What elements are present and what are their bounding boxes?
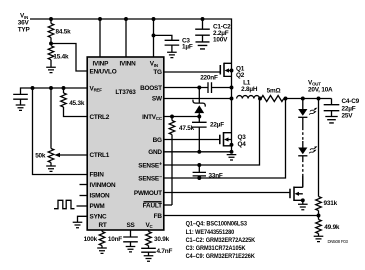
wire ISMON stub xyxy=(80,195,88,197)
svg-text:220nF: 220nF xyxy=(200,74,218,81)
node VOUT label xyxy=(308,80,333,94)
svg-text:L1: WE7443551280: L1: WE7443551280 xyxy=(186,230,235,236)
svg-text:10nF: 10nF xyxy=(108,236,122,243)
wire VIN rail to Q1 drain xyxy=(30,19,232,99)
wire VOUT line xyxy=(286,98,332,100)
svg-text:Q1–Q4: BSC100N06LS3: Q1–Q4: BSC100N06LS3 xyxy=(186,221,248,227)
svg-text:FB: FB xyxy=(154,213,163,220)
wire SW riser to Q3 drain and GND xyxy=(231,99,233,152)
wire TG to Q1 gate xyxy=(164,71,221,73)
wire FBIN to VREF xyxy=(33,88,88,175)
IC U1 LT3763 body xyxy=(87,57,164,230)
ground for SYNC xyxy=(73,222,83,227)
svg-text:SENSE+: SENSE+ xyxy=(138,161,162,169)
svg-text:SS: SS xyxy=(126,222,135,229)
svg-text:5mΩ: 5mΩ xyxy=(267,87,281,94)
svg-text:IVINMON: IVINMON xyxy=(90,182,117,189)
resistor R6 30.9k on VC xyxy=(146,230,170,248)
capacitor C3 1uF xyxy=(165,37,193,52)
ground for 50k pot xyxy=(46,166,56,171)
svg-text:4.7nF: 4.7nF xyxy=(157,248,173,255)
svg-text:SENSE−: SENSE− xyxy=(138,174,162,182)
junction VREF/50k xyxy=(49,86,53,90)
junction FB/divider xyxy=(317,214,321,218)
ground for VREF bypass xyxy=(16,105,26,110)
junction VOUT/divider xyxy=(317,97,321,101)
resistor R9 931k xyxy=(316,99,338,216)
wire FB line xyxy=(164,215,319,217)
svg-text:50k: 50k xyxy=(35,152,46,159)
resistor R7 47.5k FAULT pullup xyxy=(169,117,194,206)
svg-text:1µF: 1µF xyxy=(182,43,193,50)
svg-text:TG: TG xyxy=(153,69,162,76)
junction VREF/FBIN riser xyxy=(31,86,35,90)
svg-text:FBIN: FBIN xyxy=(90,171,105,178)
ground for Q5 xyxy=(298,204,308,209)
inductor L1 2.8uH xyxy=(237,80,260,99)
svg-text:ISMON: ISMON xyxy=(90,193,111,200)
svg-text:LT3763: LT3763 xyxy=(115,89,136,96)
ground for SS xyxy=(126,247,136,252)
svg-text:EN/UVLO: EN/UVLO xyxy=(90,68,117,75)
wire GND line xyxy=(164,151,232,153)
capacitor C10 10nF on SS xyxy=(108,230,138,247)
capacitor C11 4.7nF on VC xyxy=(141,248,172,256)
wire SW line xyxy=(164,98,232,100)
svg-text:C1–C2: GRM32ER72A225K: C1–C2: GRM32ER72A225K xyxy=(186,238,256,244)
resistor R3 45.3k xyxy=(61,88,87,117)
wire SENSE+ line xyxy=(164,99,260,166)
transistor Q5 PWM dimming NMOS xyxy=(290,176,303,204)
ground for 15.4k xyxy=(46,67,56,72)
capacitor C12 22uF INTVCC xyxy=(192,117,224,152)
node VIN input label xyxy=(18,13,31,34)
svg-text:100V: 100V xyxy=(213,36,228,43)
svg-text:PWMOUT: PWMOUT xyxy=(134,190,162,197)
svg-text:IVINN: IVINN xyxy=(119,61,136,68)
svg-text:SW: SW xyxy=(152,95,163,102)
transistor Q1 Q2 top NMOS xyxy=(220,63,244,79)
ground for RT xyxy=(97,248,107,253)
capacitor VREF bypass xyxy=(13,94,28,105)
svg-text:Q2: Q2 xyxy=(236,72,245,79)
svg-text:CTRL1: CTRL1 xyxy=(90,152,110,159)
capacitor C1-C2 2.2uF 100V xyxy=(195,19,231,43)
capacitor C13 33nF xyxy=(193,165,223,180)
svg-text:C4–C9: GRM32ER71E226K: C4–C9: GRM32ER71E226K xyxy=(186,254,256,260)
wire BOOST line xyxy=(164,87,232,89)
junction rail/IVINP xyxy=(98,17,102,21)
svg-text:22µF: 22µF xyxy=(342,105,356,112)
wire SENSE- line xyxy=(164,99,286,179)
wire BG to Q3 gate xyxy=(164,139,220,141)
junction GND/Q3 xyxy=(230,150,234,154)
svg-text:C3: GRM31CR72A105K: C3: GRM31CR72A105K xyxy=(186,246,246,252)
junction SENSE+/33nF xyxy=(197,163,201,167)
diode D1 boost schottky xyxy=(193,88,205,117)
wire IVINMON stub xyxy=(80,184,88,186)
capacitor C4-C9 22uF 25V xyxy=(324,98,360,120)
wire VIN pin drop xyxy=(153,19,155,57)
svg-text:Q4: Q4 xyxy=(238,141,247,148)
LED D2 top xyxy=(298,99,318,118)
svg-text:20V, 10A: 20V, 10A xyxy=(308,86,333,93)
svg-text:BG: BG xyxy=(153,137,162,144)
IC U1 pin labels top xyxy=(92,61,157,68)
svg-text:DN508 F03: DN508 F03 xyxy=(328,239,349,244)
FAULT overline xyxy=(144,201,162,203)
junction 5mohm/SENSE- xyxy=(284,97,288,101)
svg-text:100k: 100k xyxy=(84,236,98,243)
svg-text:47.5k: 47.5k xyxy=(179,125,195,132)
LED D3 bottom xyxy=(298,141,318,156)
resistor R2 15.4k xyxy=(48,46,69,67)
junction SENSE-/33nF xyxy=(197,176,201,180)
svg-text:GND: GND xyxy=(148,149,162,156)
wire LED string to dimming FET dashed xyxy=(302,156,304,160)
svg-text:2.8µH: 2.8µH xyxy=(241,86,258,93)
ground for C4-C9 xyxy=(325,117,337,123)
junction BOOST cap/SW riser xyxy=(230,86,234,90)
svg-text:45.3k: 45.3k xyxy=(69,100,85,107)
ground for C3 xyxy=(167,52,177,57)
svg-text:931k: 931k xyxy=(324,200,338,207)
wiper arrow CTRL1 xyxy=(54,153,87,158)
junction VOUT/LED string xyxy=(301,97,305,101)
wire INTVCC line xyxy=(164,116,200,118)
junction BOOST/diode xyxy=(197,86,201,90)
svg-text:CTRL2: CTRL2 xyxy=(90,114,110,121)
junction Q3 source xyxy=(230,143,234,147)
transistor Q3 Q4 bottom NMOS xyxy=(220,132,246,148)
wire LED string dashed xyxy=(302,117,304,127)
svg-text:C4-C9: C4-C9 xyxy=(342,98,360,105)
svg-text:SYNC: SYNC xyxy=(90,214,108,221)
square wave PWM input symbol xyxy=(54,200,75,208)
wire SYNC to ground xyxy=(78,216,88,222)
resistor R5 100k on RT xyxy=(84,230,105,248)
potentiometer R4 50k xyxy=(35,88,54,166)
junction rail/IVINN xyxy=(124,17,128,21)
svg-text:15.4k: 15.4k xyxy=(53,53,69,60)
svg-text:84.5k: 84.5k xyxy=(56,28,72,35)
svg-text:PWM: PWM xyxy=(90,203,105,210)
wire IVINP pin drop xyxy=(99,19,101,57)
svg-text:IVINP: IVINP xyxy=(92,61,109,68)
junction SW node xyxy=(230,97,234,101)
wire VREF line xyxy=(21,88,88,94)
wire IVINN pin drop xyxy=(125,19,127,57)
ground for 49.9k xyxy=(314,236,324,241)
svg-text:TYP: TYP xyxy=(18,27,31,34)
junction VIN drop / C3 tap xyxy=(152,33,156,37)
junction VREF/45.3k xyxy=(62,86,66,90)
BOM text block xyxy=(186,221,256,260)
svg-text:FAULT: FAULT xyxy=(143,202,162,209)
junction Q1 body/source xyxy=(230,69,234,73)
svg-text:30.9k: 30.9k xyxy=(154,236,170,243)
ground for C1-C2 xyxy=(196,42,210,49)
junction GND/22uF xyxy=(197,150,201,154)
junction INTVCC/diode/22uF xyxy=(197,115,201,119)
junction divider EN/UVLO tap xyxy=(49,42,53,46)
wire C3 tap xyxy=(154,35,172,40)
IC U1 pin labels right xyxy=(134,69,163,220)
junction rail/84.5k xyxy=(49,17,53,21)
resistor R10 49.9k xyxy=(316,216,340,237)
svg-text:RT: RT xyxy=(98,222,106,229)
wire PWMOUT to dimming FET gate xyxy=(164,192,290,194)
svg-text:BOOST: BOOST xyxy=(140,85,162,92)
junction rail/C1-C2 xyxy=(201,17,205,21)
IC U1 pin labels bottom xyxy=(98,222,153,229)
svg-text:22µF: 22µF xyxy=(210,122,224,129)
ground power stage xyxy=(227,155,237,160)
junction L1/5mohm/SENSE+ xyxy=(258,97,262,101)
resistor R1 84.5k xyxy=(48,19,71,44)
junction rail/VIN pin xyxy=(152,17,156,21)
wire FAULT to pullup xyxy=(164,204,172,206)
wire PWM pin stub xyxy=(77,205,88,207)
svg-text:25V: 25V xyxy=(342,112,354,119)
junction Q5 source xyxy=(301,198,305,202)
resistor R8 5mohm sense xyxy=(261,87,284,101)
wire EN/UVLO from divider xyxy=(51,44,87,72)
capacitor boost 220nF plates xyxy=(208,82,212,93)
IC U1 pin labels left xyxy=(90,68,117,220)
junction INTVCC/47.5k xyxy=(170,115,174,119)
ground for VC xyxy=(144,256,154,261)
svg-text:49.9k: 49.9k xyxy=(324,224,340,231)
